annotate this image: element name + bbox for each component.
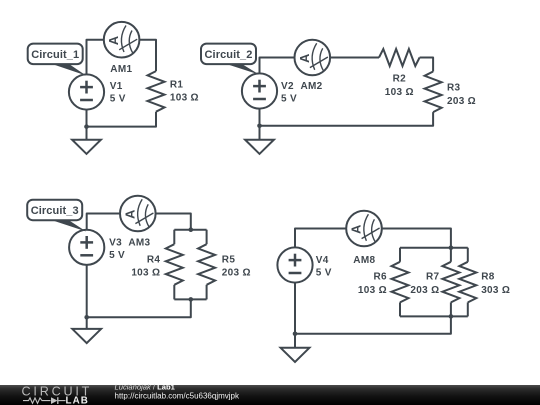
logo text LAB (66, 395, 89, 405)
wire parallel to bottom rail (295, 316, 451, 333)
wire R4 bottom stub (173, 285, 175, 300)
label V4 value (316, 255, 332, 279)
voltage source V3 (69, 230, 104, 265)
ammeter AM2 (295, 40, 331, 76)
svg-text:AM8: AM8 (353, 255, 375, 266)
wire R8 top stub (467, 248, 469, 262)
svg-text:203 Ω: 203 Ω (222, 268, 251, 279)
wire R7 bottom stub (450, 302, 452, 316)
resistor R7 (410, 262, 459, 303)
svg-text:R1: R1 (170, 80, 184, 91)
footer bar (0, 385, 540, 405)
wire R8 bottom stub (467, 302, 469, 316)
voltage source V1 (69, 74, 104, 109)
wire V1 bottom to ground (86, 110, 88, 140)
svg-text:AM1: AM1 (110, 64, 132, 75)
svg-text:R5: R5 (222, 254, 236, 265)
svg-text:R6: R6 (374, 272, 388, 283)
svg-text:103 Ω: 103 Ω (131, 268, 160, 279)
resistor R8 (459, 262, 510, 303)
junction dot (293, 332, 298, 337)
svg-text:5 V: 5 V (110, 93, 126, 104)
svg-text:5 V: 5 V (316, 268, 332, 279)
wire V3 top to AM3 (87, 214, 120, 230)
wire R4 top stub (173, 230, 175, 245)
junction dot (449, 314, 454, 319)
svg-text:V1: V1 (110, 81, 123, 92)
ground (72, 140, 101, 154)
voltage source V4 (277, 247, 312, 282)
wire R5 bottom stub (206, 285, 208, 300)
junction dot (449, 245, 454, 250)
footer title Lucianojak / Lab1 (115, 383, 176, 392)
svg-text:A: A (106, 35, 121, 45)
svg-text:http://circuitlab.com/c5u636qj: http://circuitlab.com/c5u636qjmvjpk (115, 392, 241, 401)
resistor R4 (131, 244, 182, 285)
resistor R2 (379, 49, 420, 98)
ground (72, 329, 101, 343)
wire V4 bottom to ground (294, 283, 296, 348)
wire R7 top stub (450, 248, 452, 262)
wire R6 top stub (399, 248, 401, 262)
wire R6 bottom stub (399, 302, 401, 316)
junction dot (84, 124, 89, 129)
wire R3 bottom rail (260, 112, 434, 126)
svg-text:Circuit_3: Circuit_3 (31, 205, 79, 217)
svg-text:303 Ω: 303 Ω (481, 285, 510, 296)
resistor R6 (358, 262, 409, 303)
svg-text:5 V: 5 V (109, 250, 125, 261)
wire V1 top to AM1 (87, 40, 104, 75)
wire V4 top to AM8 (295, 229, 346, 248)
svg-text:AM2: AM2 (301, 81, 323, 92)
label callout Circuit_1 (28, 44, 86, 76)
junction dot (189, 227, 194, 232)
wire R2 to R3 top (420, 58, 434, 72)
svg-text:R4: R4 (147, 254, 161, 265)
wire V2 top to AM2 (260, 58, 295, 74)
label V2 value (281, 81, 297, 105)
ground (281, 348, 310, 362)
ammeter AM8 (346, 211, 382, 247)
svg-text:103 Ω: 103 Ω (170, 93, 199, 104)
wire parallel bottom bar (174, 298, 206, 300)
svg-text:AM3: AM3 (128, 237, 150, 248)
junction dot (257, 124, 262, 129)
svg-text:R3: R3 (447, 83, 461, 94)
CircuitLab logo text CIRCUIT (22, 384, 93, 398)
wire AM8 to parallel node (382, 229, 451, 248)
wire V2 bottom to ground (259, 109, 261, 140)
svg-text:103 Ω: 103 Ω (385, 87, 414, 98)
wire R5 top stub (206, 230, 208, 245)
wire AM1 to R1 top (139, 40, 156, 71)
junction dot (189, 297, 194, 302)
svg-text:103 Ω: 103 Ω (358, 285, 387, 296)
svg-text:Circuit_1: Circuit_1 (31, 49, 79, 61)
label callout Circuit_2 (201, 44, 259, 75)
svg-text:A: A (122, 209, 137, 219)
wire V3 bottom to ground (86, 265, 88, 329)
voltage source V2 (242, 73, 277, 108)
svg-text:R7: R7 (426, 272, 440, 283)
ground (245, 140, 274, 154)
svg-text:Lucianojak / Lab1: Lucianojak / Lab1 (115, 383, 176, 392)
wire parallel top bar (400, 247, 468, 249)
svg-text:V4: V4 (316, 255, 329, 266)
wire AM2 to R2 (331, 57, 379, 59)
svg-text:A: A (297, 53, 312, 63)
junction dot (84, 315, 89, 320)
wire AM3 to parallel node (156, 214, 191, 230)
label callout Circuit_3 (27, 200, 86, 232)
resistor R5 (198, 244, 251, 285)
wire parallel top bar (174, 229, 206, 231)
svg-text:Circuit_2: Circuit_2 (205, 49, 253, 61)
svg-text:A: A (349, 224, 364, 234)
svg-text:203 Ω: 203 Ω (447, 96, 476, 107)
logo wire with resistor and diode (23, 397, 66, 404)
label V1 value (110, 81, 126, 105)
wire parallel to bottom rail (87, 299, 191, 317)
svg-text:5 V: 5 V (281, 93, 297, 104)
svg-text:LAB: LAB (66, 395, 89, 405)
svg-text:V3: V3 (109, 237, 122, 248)
wire parallel bottom bar (400, 315, 468, 317)
label V3 value (109, 237, 125, 261)
ammeter AM3 (120, 196, 156, 232)
resistor R1 (148, 71, 199, 112)
svg-text:V2: V2 (281, 81, 294, 92)
svg-text:R2: R2 (393, 74, 407, 85)
ammeter AM1 (104, 22, 140, 58)
svg-text:R8: R8 (481, 272, 495, 283)
svg-text:203 Ω: 203 Ω (410, 285, 439, 296)
wire R1 bottom rail (87, 112, 157, 127)
resistor R3 (425, 72, 476, 113)
footer url (115, 392, 241, 401)
